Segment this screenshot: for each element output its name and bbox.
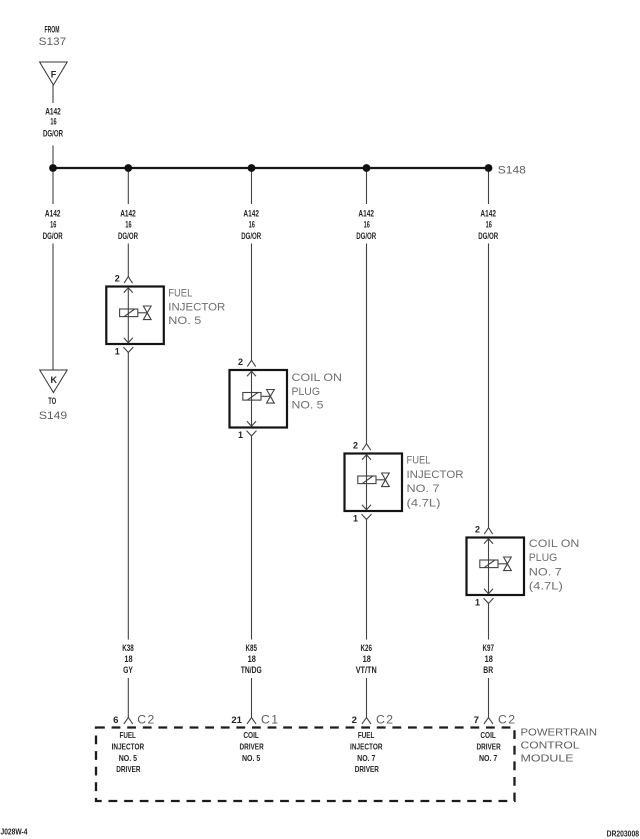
svg-text:INJECTOR: INJECTOR [112,743,145,752]
svg-text:S148: S148 [498,165,526,177]
svg-text:DRIVER: DRIVER [240,743,264,752]
svg-text:FUEL: FUEL [120,731,136,740]
svg-text:COIL: COIL [243,731,259,740]
svg-text:FUEL: FUEL [358,731,374,740]
svg-text:2: 2 [475,525,480,535]
svg-text:K38: K38 [122,643,134,653]
svg-text:18: 18 [363,654,371,664]
svg-text:A142: A142 [480,209,496,219]
svg-text:TO: TO [48,396,56,406]
svg-text:DRIVER: DRIVER [477,743,501,752]
svg-text:7: 7 [474,715,479,726]
svg-text:DG/OR: DG/OR [43,231,63,241]
svg-text:NO. 7: NO. 7 [479,754,498,763]
svg-text:DG/OR: DG/OR [478,231,498,241]
svg-text:21: 21 [231,715,242,726]
svg-text:FROM: FROM [45,25,60,35]
svg-text:18: 18 [485,654,493,664]
svg-text:POWERTRAIN: POWERTRAIN [521,728,598,739]
svg-text:6: 6 [113,715,118,726]
svg-text:(4.7L): (4.7L) [407,497,441,509]
svg-text:COIL ON: COIL ON [292,372,343,384]
svg-text:1: 1 [475,598,480,608]
svg-text:NO. 5: NO. 5 [242,754,261,763]
svg-text:1: 1 [115,347,120,357]
svg-text:16: 16 [50,220,56,230]
svg-text:VT/TN: VT/TN [356,665,377,675]
svg-text:18: 18 [124,654,132,664]
svg-text:A142: A142 [45,209,61,219]
svg-text:CONTROL: CONTROL [521,740,581,751]
svg-text:INJECTOR: INJECTOR [350,743,383,752]
svg-text:18: 18 [248,654,256,664]
svg-text:C2: C2 [498,712,515,726]
svg-text:S149: S149 [39,410,67,422]
svg-text:TN/DG: TN/DG [241,665,262,675]
svg-text:S137: S137 [39,36,67,48]
svg-text:NO. 5: NO. 5 [292,400,324,412]
svg-text:16: 16 [486,220,492,230]
svg-text:C2: C2 [376,712,393,726]
svg-text:2: 2 [352,715,357,726]
svg-text:GY: GY [123,665,133,675]
svg-text:C1: C1 [261,712,278,726]
svg-text:16: 16 [364,220,370,230]
svg-text:A142: A142 [243,209,259,219]
svg-text:(4.7L): (4.7L) [529,581,563,593]
svg-text:COIL: COIL [480,731,496,740]
svg-text:2: 2 [353,441,358,451]
svg-text:DRIVER: DRIVER [355,765,379,774]
svg-text:A142: A142 [120,209,136,219]
svg-text:DG/OR: DG/OR [43,129,63,139]
svg-text:MODULE: MODULE [521,754,575,765]
svg-text:2: 2 [238,357,243,367]
svg-text:BR: BR [483,665,493,675]
svg-text:DG/OR: DG/OR [241,231,261,241]
svg-text:NO. 7: NO. 7 [529,566,562,578]
svg-text:NO. 7: NO. 7 [407,483,440,495]
svg-text:K85: K85 [245,643,257,653]
svg-text:K26: K26 [360,643,372,653]
svg-text:PLUG: PLUG [529,552,558,564]
svg-text:16: 16 [50,117,56,127]
svg-text:2: 2 [115,274,120,284]
svg-text:DR203008: DR203008 [607,829,640,839]
svg-text:NO. 5: NO. 5 [168,315,201,327]
svg-text:K97: K97 [482,643,494,653]
svg-text:A142: A142 [358,209,374,219]
svg-text:PLUG: PLUG [292,386,321,398]
svg-text:1: 1 [353,514,358,524]
svg-text:NO. 5: NO. 5 [119,754,138,763]
svg-text:NO. 7: NO. 7 [357,754,376,763]
svg-text:C2: C2 [137,712,154,726]
svg-text:FUEL: FUEL [407,455,431,467]
svg-text:K: K [51,375,58,385]
svg-text:FUEL: FUEL [168,288,192,300]
svg-text:INJECTOR: INJECTOR [168,301,225,313]
svg-text:16: 16 [125,220,131,230]
svg-text:DRIVER: DRIVER [116,765,140,774]
svg-text:A142: A142 [45,106,61,116]
svg-text:J028W-4: J028W-4 [1,827,28,837]
svg-text:COIL ON: COIL ON [529,538,580,550]
svg-text:DG/OR: DG/OR [356,231,376,241]
svg-text:DG/OR: DG/OR [118,231,138,241]
svg-text:16: 16 [249,220,255,230]
svg-text:INJECTOR: INJECTOR [407,469,464,481]
svg-text:F: F [51,70,57,80]
svg-text:1: 1 [238,430,243,440]
